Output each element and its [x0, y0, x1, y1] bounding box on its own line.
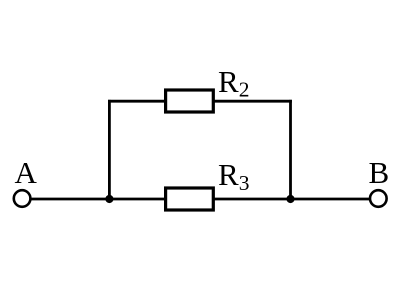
resistor R2 (box)	[166, 90, 214, 112]
resistor R3 (box)	[166, 188, 214, 210]
svg-text:B: B	[369, 155, 390, 190]
junction node (right)	[286, 195, 294, 203]
wire: terminal A to resistor R3 (bottom rail left segment)	[30, 198, 167, 201]
wire: resistor R3 to terminal B (bottom rail right segment)	[212, 198, 370, 201]
terminal A (open circle)	[14, 190, 31, 207]
svg-text:A: A	[15, 155, 38, 190]
junction node (left)	[105, 195, 113, 203]
svg-text:R2: R2	[218, 64, 249, 102]
wire: top rail right segment	[212, 100, 292, 103]
wire: right vertical branch	[289, 100, 292, 199]
svg-text:R3: R3	[218, 157, 249, 195]
wire: left vertical branch	[108, 100, 111, 199]
wire: top rail left segment	[108, 100, 167, 103]
terminal B (open circle)	[370, 190, 387, 207]
